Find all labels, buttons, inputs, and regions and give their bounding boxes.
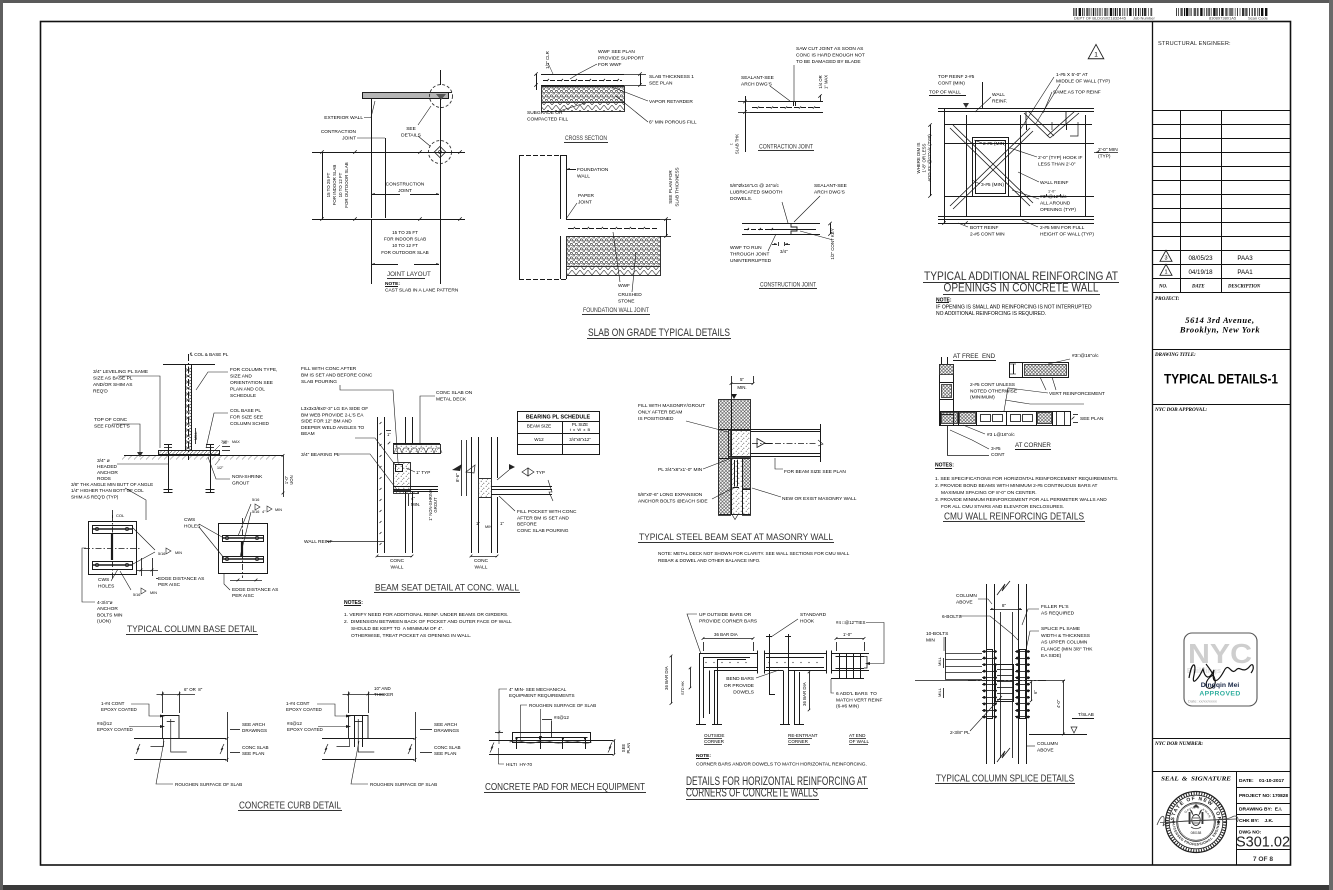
svg-text:2-#5 MIN FOR FULL: 2-#5 MIN FOR FULL [1040, 225, 1085, 231]
svg-text:MIN: MIN [150, 591, 157, 595]
svg-text:APPROVED: APPROVED [1199, 691, 1240, 698]
svg-text:RE-ENTRANT: RE-ENTRANT [788, 733, 818, 738]
svg-text:(MINIMUM): (MINIMUM) [970, 395, 995, 401]
svg-text:#3□@12"o/c: #3□@12"o/c [1040, 194, 1067, 200]
svg-text:DEPT OF BLDGS021832445: DEPT OF BLDGS021832445 [1074, 16, 1127, 21]
svg-text:NON-SHRINK: NON-SHRINK [232, 474, 263, 480]
svg-text:℄ COL & BASE PL: ℄ COL & BASE PL [189, 352, 229, 357]
svg-text:AT FREE END: AT FREE END [953, 353, 996, 360]
svg-text:PROJECT NO: 170828: PROJECT NO: 170828 [1239, 793, 1288, 798]
svg-text:EPOXY COATED: EPOXY COATED [97, 727, 134, 732]
svg-text:2'-0" (TYP) HOOK IF: 2'-0" (TYP) HOOK IF [1038, 155, 1083, 161]
svg-text:SEE FDN DET'S: SEE FDN DET'S [94, 424, 130, 430]
svg-text:6": 6" [1033, 690, 1038, 694]
svg-text:ADD #3□@12"o/c (TYP): ADD #3□@12"o/c (TYP) [927, 134, 932, 182]
svg-text:6-BOLTS: 6-BOLTS [942, 614, 962, 620]
svg-text:ROUGHEN SURFACE OF SLAB: ROUGHEN SURFACE OF SLAB [175, 782, 242, 787]
svg-text:THROUGH JOINT: THROUGH JOINT [730, 252, 770, 258]
svg-text:OTHERWISE, TREAT POCKET AS OPE: OTHERWISE, TREAT POCKET AS OPENING IN WA… [351, 633, 471, 639]
svg-text:COL: COL [116, 513, 125, 518]
svg-text:CORNER BARS AND/OR DOWELS TO M: CORNER BARS AND/OR DOWELS TO MATCH HORIZ… [696, 762, 867, 768]
svg-text:OPENINGS IN CONCRETE WALL: OPENINGS IN CONCRETE WALL [944, 281, 1099, 295]
svg-text:HEIGHT OF WALL (TYP): HEIGHT OF WALL (TYP) [1040, 232, 1094, 238]
svg-text:ARCH DWG'S: ARCH DWG'S [741, 82, 772, 88]
svg-text:STANDARD: STANDARD [800, 612, 827, 618]
svg-text:MIN.: MIN. [411, 502, 420, 507]
svg-text:1'-0": 1'-0" [843, 632, 852, 637]
svg-text:TYPICAL STEEL BEAM SEAT AT MAS: TYPICAL STEEL BEAM SEAT AT MASONRY WALL [639, 531, 833, 542]
svg-text:080158: 080158 [1191, 831, 1202, 835]
svg-text:#3 L@16"o/c: #3 L@16"o/c [987, 432, 1015, 438]
svg-text:ANCHOR: ANCHOR [97, 470, 118, 476]
svg-text:OF WALL: OF WALL [849, 739, 869, 744]
svg-text:8'-6": 8'-6" [455, 473, 460, 482]
svg-text:4-3/4"ø: 4-3/4"ø [97, 600, 113, 606]
svg-text:#4@12: #4@12 [97, 721, 112, 726]
svg-text:ONLY AFTER BEAM: ONLY AFTER BEAM [638, 410, 682, 416]
svg-text:SPLICE PL SAME: SPLICE PL SAME [1041, 626, 1080, 632]
svg-text:UNINTERRUPTED: UNINTERRUPTED [730, 258, 772, 264]
svg-text:CONTRACTION JOINT: CONTRACTION JOINT [759, 144, 813, 151]
svg-text:#4 □@12"TIES: #4 □@12"TIES [836, 620, 865, 625]
svg-text:SCHEDULE: SCHEDULE [230, 393, 256, 399]
svg-text:WWF TO RUN: WWF TO RUN [730, 245, 762, 251]
svg-text:MAX: MAX [232, 440, 240, 444]
svg-text:VERT REINFORCEMENT: VERT REINFORCEMENT [1049, 391, 1105, 397]
svg-text:CROSS SECTION: CROSS SECTION [565, 135, 607, 142]
svg-text:METAL DECK: METAL DECK [436, 397, 467, 403]
svg-text:2-#5 CONT MIN: 2-#5 CONT MIN [970, 232, 1005, 238]
svg-text:ABOVE: ABOVE [956, 599, 973, 605]
svg-text:WWF SEE PLAN: WWF SEE PLAN [598, 49, 635, 55]
svg-text:W12: W12 [534, 437, 544, 442]
svg-text:SLAB POURING: SLAB POURING [301, 379, 337, 385]
svg-text:#4@12: #4@12 [287, 721, 302, 726]
svg-text:WALL: WALL [577, 174, 590, 180]
svg-text:2. PROVIDE BOND BEAMS WITH MIN: 2. PROVIDE BOND BEAMS WITH MINIMUM 2-#5 … [935, 483, 1098, 489]
svg-text:PLAN: PLAN [626, 743, 631, 754]
svg-text:TOP OF WALL: TOP OF WALL [929, 90, 961, 96]
svg-text:CONC IS HARD ENOUGH NOT: CONC IS HARD ENOUGH NOT [796, 53, 865, 59]
svg-text:CONCRETE PAD FOR MECH EQUIPMEN: CONCRETE PAD FOR MECH EQUIPMENT [485, 782, 645, 793]
svg-text:FILL WITH MASONRY/GROUT: FILL WITH MASONRY/GROUT [638, 403, 705, 409]
svg-text:FOR OUTDOOR SLAB: FOR OUTDOOR SLAB [381, 250, 428, 255]
svg-text:SLAB THICKNESS: SLAB THICKNESS [675, 167, 680, 206]
svg-text:1-#5 X 5'-0" AT: 1-#5 X 5'-0" AT [1056, 72, 1088, 78]
svg-text:SEE PLAN: SEE PLAN [649, 81, 673, 87]
svg-text:COLUMN SCHED: COLUMN SCHED [230, 421, 269, 427]
svg-text:3/4" ø: 3/4" ø [97, 458, 110, 464]
svg-text:3/4" BEARING PL: 3/4" BEARING PL [301, 452, 340, 458]
svg-text:8": 8" [1002, 603, 1007, 608]
svg-text:4" MIN- SEE MECHANICAL: 4" MIN- SEE MECHANICAL [509, 687, 567, 692]
svg-text:MAXIMUM SPACING OF 8'-0" ON CE: MAXIMUM SPACING OF 8'-0" ON CENTER. [941, 490, 1037, 496]
svg-text:5/8"Øx16"LG @ 24"o/c: 5/8"Øx16"LG @ 24"o/c [730, 183, 780, 189]
svg-text:WWF: WWF [618, 283, 630, 289]
svg-text:JOINT LAYOUT: JOINT LAYOUT [387, 271, 431, 278]
svg-text:SEE PLAN: SEE PLAN [1080, 416, 1104, 422]
svg-text:4": 4" [411, 496, 415, 501]
svg-text:DRAWINGS: DRAWINGS [434, 728, 459, 733]
svg-text:NOTED OTHERWISE: NOTED OTHERWISE [970, 388, 1017, 394]
svg-text:FOUNDATION: FOUNDATION [577, 167, 609, 173]
svg-text:36 BAR DIA: 36 BAR DIA [714, 632, 738, 637]
svg-text:3/4"x6"x12": 3/4"x6"x12" [569, 437, 591, 442]
svg-text:AND/OR SHIM AS: AND/OR SHIM AS [93, 382, 132, 388]
svg-text:04/19/18: 04/19/18 [1188, 269, 1213, 276]
svg-text:UON: UON [289, 475, 294, 484]
svg-text:CONSTRUCTION: CONSTRUCTION [386, 182, 425, 188]
svg-text:SAW CUT JOINT AS SOON AS: SAW CUT JOINT AS SOON AS [796, 46, 863, 52]
svg-text:5/16: 5/16 [252, 498, 259, 502]
svg-text:2'-0" MIN: 2'-0" MIN [1098, 147, 1118, 153]
svg-text:SUBGRADE OR: SUBGRADE OR [527, 110, 563, 116]
svg-text:STRUCTURAL ENGINEER:: STRUCTURAL ENGINEER: [1158, 41, 1231, 47]
svg-text:LESS THAN 2'-0": LESS THAN 2'-0" [1038, 162, 1076, 168]
svg-text:STONE: STONE [618, 299, 634, 305]
svg-text:MIN: MIN [175, 551, 182, 555]
svg-text:5/16: 5/16 [133, 593, 140, 597]
svg-text:STD HK: STD HK [681, 681, 685, 695]
svg-text:FOR OUTDOOR SLAB: FOR OUTDOOR SLAB [344, 162, 349, 207]
svg-text:IF OPENING IS SMALL AND REINFO: IF OPENING IS SMALL AND REINFORCING IS N… [936, 305, 1092, 311]
svg-text:AT CORNER: AT CORNER [1015, 442, 1051, 449]
svg-text:(6-#6 MIN): (6-#6 MIN) [836, 704, 859, 710]
svg-text:6" OR 8": 6" OR 8" [184, 687, 203, 692]
svg-text:5/16: 5/16 [252, 510, 259, 514]
svg-text:DRAWING TITLE:: DRAWING TITLE: [1154, 353, 1196, 358]
svg-text:36 BAR DIA: 36 BAR DIA [802, 682, 807, 706]
svg-text:3: 3 [1164, 256, 1167, 262]
svg-text:AFTER BM IS SET AND: AFTER BM IS SET AND [517, 515, 569, 521]
svg-text:t x W x B: t x W x B [570, 427, 591, 432]
svg-text:JOINT: JOINT [398, 188, 412, 194]
svg-text:BEAM SEAT DETAIL AT CONC. WALL: BEAM SEAT DETAIL AT CONC. WALL [375, 582, 519, 593]
svg-text:5": 5" [740, 377, 744, 382]
svg-text:UP OUTSIDE BARS OR: UP OUTSIDE BARS OR [699, 612, 752, 618]
svg-text:JOINT: JOINT [342, 136, 356, 142]
svg-text:EA SIDE): EA SIDE) [1041, 653, 1062, 659]
svg-text:BEFORE: BEFORE [517, 522, 537, 528]
svg-text:EDGE DISTANCE AS: EDGE DISTANCE AS [232, 587, 278, 593]
svg-text:SEE: SEE [406, 126, 416, 132]
svg-text:AS REQUIRED: AS REQUIRED [1041, 610, 1075, 616]
svg-text:PROJECT:: PROJECT: [1155, 296, 1180, 302]
svg-text:SIZE AND: SIZE AND [230, 374, 252, 380]
svg-text:ANCHOR: ANCHOR [97, 606, 118, 612]
svg-text:MIN.: MIN. [737, 385, 746, 390]
svg-text:MIN: MIN [926, 637, 935, 643]
svg-text:T/SLAB: T/SLAB [1078, 712, 1094, 717]
svg-text:1": 1" [500, 521, 504, 526]
svg-text:TOP REINF 2-#5: TOP REINF 2-#5 [938, 74, 975, 80]
svg-text:REBAR & DOWEL AND OTHER BALANC: REBAR & DOWEL AND OTHER BALANCE INFO. [658, 558, 760, 563]
svg-text:NYC DOB NUMBER:: NYC DOB NUMBER: [1154, 741, 1203, 747]
svg-text:CONC SLAB POURING: CONC SLAB POURING [517, 528, 569, 534]
svg-text:6 ADD'L BARS TO: 6 ADD'L BARS TO [836, 691, 877, 697]
svg-text:FOR COLUMN TYPE,: FOR COLUMN TYPE, [230, 367, 277, 373]
svg-text:SEAL & SIGNATURE: SEAL & SIGNATURE [1161, 776, 1231, 783]
svg-text:2-#5 CONT UNLESS: 2-#5 CONT UNLESS [970, 382, 1015, 388]
svg-text:TO BE DAMAGED BY BLADE: TO BE DAMAGED BY BLADE [796, 59, 861, 65]
svg-text:DEEPER WELD ANGLES TO: DEEPER WELD ANGLES TO [301, 425, 365, 431]
svg-text:SEALANT-SEE: SEALANT-SEE [741, 75, 774, 81]
svg-text:NO ADDITIONAL REINFORCING IS R: NO ADDITIONAL REINFORCING IS REQUIRED. [936, 311, 1046, 317]
svg-text:NOTE: METAL DECK NOT SHOWN FOR: NOTE: METAL DECK NOT SHOWN FOR CLARITY. … [658, 551, 850, 556]
svg-text:WALL: WALL [992, 92, 1005, 98]
svg-text:EDGE DISTANCE AS: EDGE DISTANCE AS [158, 576, 204, 582]
svg-text:3/8" THK ANGLE MIN BUTT OF ANG: 3/8" THK ANGLE MIN BUTT OF ANGLE [71, 482, 153, 487]
svg-text:1" TYP: 1" TYP [416, 470, 430, 475]
svg-text:WHERE DIM IS: WHERE DIM IS [916, 142, 921, 173]
svg-text:OUTSIDE: OUTSIDE [704, 733, 724, 738]
svg-text:36 BAR DIA: 36 BAR DIA [664, 666, 669, 690]
svg-text:TYPICAL COLUMN SPLICE DETAILS: TYPICAL COLUMN SPLICE DETAILS [936, 774, 1074, 785]
svg-text:CONTRACTION: CONTRACTION [321, 129, 357, 135]
svg-text:10" AND: 10" AND [374, 686, 391, 691]
svg-text:NYC: NYC [1188, 638, 1252, 669]
svg-text:TYPICAL DETAILS-1: TYPICAL DETAILS-1 [1164, 372, 1278, 387]
svg-text:REQ'D: REQ'D [93, 389, 108, 395]
svg-text:SHIM AS REQ'D (TYP): SHIM AS REQ'D (TYP) [71, 494, 119, 499]
svg-text:SLAB ON GRADE TYPICAL DETAILS: SLAB ON GRADE TYPICAL DETAILS [588, 327, 730, 339]
svg-text:3/4" LEVELING PL SAME: 3/4" LEVELING PL SAME [93, 369, 148, 375]
svg-text:CONCRETE CURB DETAIL: CONCRETE CURB DETAIL [239, 801, 341, 812]
svg-text:IS POSITIONED: IS POSITIONED [638, 416, 674, 422]
svg-text:Dingqin Mei: Dingqin Mei [1201, 682, 1240, 689]
svg-text:#3□@16"o/c: #3□@16"o/c [1072, 353, 1099, 359]
svg-text:CONC SLAB ON: CONC SLAB ON [436, 390, 473, 396]
svg-text:2-3/8" PL: 2-3/8" PL [950, 730, 970, 736]
svg-text:BEAM: BEAM [301, 431, 315, 437]
svg-text:ROUGHEN SURFACE OF SLAB: ROUGHEN SURFACE OF SLAB [529, 703, 596, 708]
svg-text:FOR WWF: FOR WWF [598, 62, 622, 68]
svg-text:LUBRICATED SMOOTH: LUBRICATED SMOOTH [730, 190, 783, 196]
svg-text:EPOXY COATED: EPOXY COATED [286, 707, 323, 712]
svg-text:CWS: CWS [184, 517, 195, 523]
svg-text:PAA3: PAA3 [1237, 255, 1253, 262]
svg-text:BOTT REINF: BOTT REINF [970, 225, 998, 231]
svg-text:FOR SIZE SEE: FOR SIZE SEE [230, 415, 263, 421]
svg-text:FILL POCKET WITH CONC: FILL POCKET WITH CONC [517, 509, 577, 515]
svg-text:EPOXY COATED: EPOXY COATED [287, 727, 324, 732]
svg-text:DRAWINGS: DRAWINGS [242, 728, 267, 733]
svg-text:NEW OR EXIST MASONRY WALL: NEW OR EXIST MASONRY WALL [782, 496, 857, 502]
svg-text:GROUT: GROUT [433, 497, 438, 513]
svg-text:3-#5 (MIN): 3-#5 (MIN) [981, 182, 1004, 188]
svg-text:CWS: CWS [98, 577, 109, 583]
svg-text:ORIENTATION SEE: ORIENTATION SEE [230, 380, 273, 386]
svg-text:AT END: AT END [849, 733, 866, 738]
svg-text:MATCH VERT REINF: MATCH VERT REINF [836, 697, 882, 703]
svg-text:01-10-2017: 01-10-2017 [1259, 778, 1284, 784]
svg-text:PER AISC: PER AISC [158, 582, 181, 588]
svg-text:HOLES: HOLES [98, 584, 114, 590]
svg-text:BOLTS MIN: BOLTS MIN [97, 612, 123, 618]
svg-text:FLANGE (MIN 3/8" THK: FLANGE (MIN 3/8" THK [1041, 646, 1093, 652]
svg-text:BEARING PL SCHEDULE: BEARING PL SCHEDULE [526, 415, 591, 421]
svg-text:1-#4 CONT: 1-#4 CONT [286, 701, 310, 706]
svg-text:WIDTH & THICKNESS: WIDTH & THICKNESS [1041, 633, 1090, 639]
svg-text:1: 1 [1164, 270, 1167, 276]
svg-text:WALL: WALL [475, 565, 488, 571]
svg-text:COMPACTED FILL: COMPACTED FILL [527, 117, 569, 123]
svg-text:FOR INDOOR SLAB: FOR INDOOR SLAB [332, 165, 337, 206]
svg-text:CONC SLAB: CONC SLAB [242, 745, 269, 750]
svg-text:EXTERIOR WALL: EXTERIOR WALL [324, 115, 363, 121]
svg-text:CORNERS OF CONCRETE WALLS: CORNERS OF CONCRETE WALLS [686, 786, 818, 800]
svg-text:SEE ARCH: SEE ARCH [242, 722, 265, 727]
svg-text:DETAILS: DETAILS [401, 133, 421, 139]
svg-text:FOR BEAM SIZE SEE PLAN: FOR BEAM SIZE SEE PLAN [784, 469, 846, 475]
svg-text:MIN: MIN [275, 508, 282, 512]
svg-text:BM IS SET AND BEFORE CONC: BM IS SET AND BEFORE CONC [301, 373, 373, 379]
svg-text:5614 3rd Avenue,: 5614 3rd Avenue, [1185, 316, 1254, 325]
svg-text:BEAM SIZE: BEAM SIZE [527, 424, 552, 429]
svg-text:MILL: MILL [937, 656, 942, 666]
svg-text:2. DIMENSION BETWEEN BACK OF: 2. DIMENSION BETWEEN BACK OF POCKET AND … [344, 619, 512, 625]
svg-text:1-#4 CONT: 1-#4 CONT [101, 701, 125, 706]
svg-text:5/16: 5/16 [158, 552, 165, 556]
svg-text:SLAB THICKNESS 1: SLAB THICKNESS 1 [649, 74, 694, 80]
svg-text:Scan Code: Scan Code [1248, 16, 1269, 21]
svg-text:HOOK: HOOK [800, 618, 815, 624]
svg-text:FILLER PL'S: FILLER PL'S [1041, 604, 1069, 610]
svg-text:CONSTRUCTION JOINT: CONSTRUCTION JOINT [760, 282, 816, 289]
svg-text:ABOVE: ABOVE [1037, 747, 1054, 753]
svg-text:Job Number: Job Number [1133, 16, 1155, 21]
svg-text:HILTI HY-70: HILTI HY-70 [506, 762, 532, 767]
svg-text:NYC DOB APPROVAL:: NYC DOB APPROVAL: [1154, 407, 1207, 413]
svg-text:10 TO 12 FT: 10 TO 12 FT [392, 243, 418, 248]
svg-text:ANCHOR BOLTS @EACH SIDE: ANCHOR BOLTS @EACH SIDE [638, 498, 708, 504]
svg-text:1" MAX: 1" MAX [824, 75, 829, 89]
svg-text:CAST SLAB IN A LANE PATTERN: CAST SLAB IN A LANE PATTERN [385, 288, 459, 294]
svg-text:3/4": 3/4" [780, 249, 788, 254]
svg-text:ALL AROUND: ALL AROUND [1040, 201, 1071, 207]
svg-text:BM WEB PROVIDE 2-L'S EA: BM WEB PROVIDE 2-L'S EA [301, 412, 364, 418]
svg-text:DOWELS: DOWELS [733, 690, 754, 696]
svg-text:PL 3/4"x6"x1'-0" MIN: PL 3/4"x6"x1'-0" MIN [658, 467, 703, 473]
svg-text:(UON): (UON) [97, 619, 111, 625]
svg-text:REINF.: REINF. [992, 99, 1007, 105]
svg-text:MILL: MILL [937, 687, 942, 697]
svg-text:1'-0": 1'-0" [1048, 190, 1056, 194]
svg-text:FOUNDATION WALL JOINT: FOUNDATION WALL JOINT [583, 307, 649, 314]
svg-text:MILL: MILL [194, 432, 198, 440]
svg-text:SAME AS TOP REINF: SAME AS TOP REINF [1053, 90, 1101, 96]
svg-text:CONC: CONC [390, 558, 405, 564]
svg-text:NO.: NO. [1158, 285, 1167, 290]
svg-text:SLAB THK: SLAB THK [735, 134, 740, 154]
svg-text:CMU WALL REINFORCING DETAILS: CMU WALL REINFORCING DETAILS [944, 512, 1084, 523]
svg-text:(TYP): (TYP) [1098, 154, 1111, 160]
svg-text:Brooklyn, New York: Brooklyn, New York [1179, 326, 1260, 335]
svg-text:WALL: WALL [391, 565, 404, 571]
svg-text:SEALANT-SEE: SEALANT-SEE [814, 183, 847, 189]
svg-text:COLUMN: COLUMN [1037, 741, 1058, 747]
svg-text:PROVIDE SUPPORT: PROVIDE SUPPORT [598, 56, 644, 62]
svg-text:CONT (MIN): CONT (MIN) [938, 81, 965, 87]
svg-text:MIDDLE OF WALL (TYP): MIDDLE OF WALL (TYP) [1056, 79, 1110, 85]
svg-text:SHOULD BE KEPT TO A MINIMUM O: SHOULD BE KEPT TO A MINIMUM OF 4". [351, 626, 444, 632]
svg-text:AS UPPER COLUMN: AS UPPER COLUMN [1041, 640, 1088, 646]
svg-text:FILL WITH CONC AFTER: FILL WITH CONC AFTER [301, 366, 357, 372]
svg-text:DRAWING BY: E.I.: DRAWING BY: E.I. [1239, 807, 1283, 813]
svg-text:TOP OF CONC: TOP OF CONC [94, 417, 128, 423]
svg-text:OR PROVIDE: OR PROVIDE [724, 683, 754, 689]
svg-text:1: 1 [1094, 51, 1098, 58]
svg-text:CRUSHED: CRUSHED [618, 292, 642, 298]
svg-text:EPOXY COATED: EPOXY COATED [101, 707, 138, 712]
svg-text:SIZE AS BASE PL: SIZE AS BASE PL [93, 376, 133, 382]
svg-text:SIDE FOR 12" BM AND: SIDE FOR 12" BM AND [301, 419, 352, 425]
svg-text:2-#5 (MIN): 2-#5 (MIN) [983, 141, 1006, 147]
svg-text:ROUGHEN SURFACE OF SLAB: ROUGHEN SURFACE OF SLAB [370, 782, 437, 787]
svg-text:CONC SLAB: CONC SLAB [434, 745, 461, 750]
svg-text:1/2": 1/2" [217, 466, 224, 470]
svg-text:DATE: DATE [1191, 285, 1205, 290]
svg-text:PLAN AND COL: PLAN AND COL [230, 387, 265, 393]
svg-text:TYPICAL COLUMN BASE DETAIL: TYPICAL COLUMN BASE DETAIL [127, 623, 257, 634]
svg-text:TYP: TYP [536, 470, 545, 475]
svg-text:3-#5: 3-#5 [991, 446, 1001, 452]
svg-text:CONC: CONC [474, 558, 489, 564]
svg-text:SEE ARCH: SEE ARCH [434, 722, 457, 727]
svg-text:1/4 OR: 1/4 OR [818, 75, 823, 88]
svg-text:1. SEE SPECIFICATIONS FOR HORI: 1. SEE SPECIFICATIONS FOR HORIZONTAL REI… [935, 476, 1118, 482]
svg-text:WALL REINF: WALL REINF [1040, 180, 1068, 186]
svg-text:GROUT: GROUT [232, 481, 249, 487]
svg-text:BEND BARS: BEND BARS [726, 676, 754, 682]
svg-text:1'-8" OR LESS: 1'-8" OR LESS [922, 143, 927, 172]
svg-text:HEADED: HEADED [97, 464, 118, 470]
svg-text:3. PROVIDE MINIMUM REINFORCEME: 3. PROVIDE MINIMUM REINFORCEMENT FOR ALL… [935, 497, 1107, 503]
svg-text:SEE PLAN: SEE PLAN [242, 751, 264, 756]
svg-text:COL BASE PL: COL BASE PL [230, 408, 261, 414]
svg-text:15 TO 25 FT: 15 TO 25 FT [326, 172, 331, 197]
svg-text:THICKER: THICKER [374, 692, 393, 697]
svg-text:PAA1: PAA1 [1237, 269, 1253, 276]
svg-text:JOINT: JOINT [578, 200, 592, 206]
svg-text:CONT: CONT [991, 452, 1005, 458]
svg-text:CORNER: CORNER [788, 739, 809, 744]
svg-text:Date: xx/xx/xxxx: Date: xx/xx/xxxx [1188, 699, 1217, 704]
svg-text:EQUIPMENT REQUIREMENTS: EQUIPMENT REQUIREMENTS [509, 693, 575, 698]
svg-text:15 TO 25 FT: 15 TO 25 FT [392, 230, 418, 235]
svg-text:ARCH DWG'S: ARCH DWG'S [814, 190, 845, 196]
svg-text:1/2": 1/2" [222, 441, 229, 445]
svg-text:SEE PLAN: SEE PLAN [434, 751, 456, 756]
svg-text:OPENING (TYP): OPENING (TYP) [1040, 207, 1076, 213]
svg-text:COLUMN: COLUMN [956, 593, 977, 599]
svg-text:8308973801A5: 8308973801A5 [1209, 16, 1237, 21]
svg-text:NOTES:: NOTES: [935, 463, 954, 469]
svg-text:CORNER: CORNER [704, 739, 725, 744]
svg-text:FOR INDOOR SLAB: FOR INDOOR SLAB [384, 237, 426, 242]
svg-text:SEE PLAN FOR: SEE PLAN FOR [668, 170, 673, 204]
svg-text:1": 1" [387, 432, 391, 437]
svg-text:DATE:: DATE: [1239, 778, 1254, 784]
svg-text:PER AISC: PER AISC [232, 593, 255, 599]
svg-text:6" MIN POROUS FILL: 6" MIN POROUS FILL [649, 120, 697, 126]
svg-text:HOLES: HOLES [184, 524, 200, 530]
svg-text:VAPOR RETARDER: VAPOR RETARDER [649, 99, 693, 105]
svg-text:FOR ALL CMU STAIRS AND ELEVATO: FOR ALL CMU STAIRS AND ELEVATOR ENCLOSUR… [941, 504, 1064, 510]
svg-text:S301.02: S301.02 [1236, 835, 1290, 851]
svg-text:DOWELS.: DOWELS. [730, 196, 752, 202]
svg-text:PAPER: PAPER [578, 193, 594, 199]
